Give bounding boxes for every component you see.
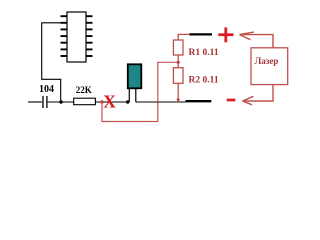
wire R1-R2 link: [177, 55, 179, 68]
resistor R1: [173, 40, 183, 55]
svg-text:R1 0.11: R1 0.11: [189, 48, 219, 58]
wire capacitor to resistor: [48, 101, 74, 103]
transistor Q1: [128, 64, 142, 102]
resistor 22K: [74, 98, 96, 105]
wire laser bottom lead with arrow: [243, 85, 274, 105]
wire laser top lead with arrow: [240, 32, 274, 48]
wire R2 bottom lead with arrow: [176, 83, 180, 102]
capacitor 104: [43, 96, 47, 108]
wire R1-R2 tap to wire: [158, 62, 178, 102]
bottom terminal bar: [186, 100, 212, 102]
svg-text:22K: 22K: [76, 85, 92, 95]
wire red bypass loop: [102, 102, 158, 122]
resistor R2: [173, 68, 183, 84]
node transistor base junction dot: [126, 100, 129, 103]
svg-text:Лазер: Лазер: [255, 56, 279, 66]
minus symbol: [227, 99, 236, 102]
top terminal bar: [190, 33, 213, 35]
wire R1 top lead to terminal: [178, 34, 189, 40]
svg-text:X: X: [103, 91, 116, 111]
node A junction dot: [59, 100, 62, 103]
wire left lead: [28, 101, 42, 103]
wire transistor to bottom terminal: [136, 101, 186, 103]
wire IC pin2 to capacitor node: [42, 23, 66, 102]
node R1-R2 junction dot: [177, 61, 180, 64]
laser box: [251, 48, 288, 85]
svg-text:R2 0.11: R2 0.11: [189, 76, 219, 86]
plus symbol: [218, 27, 233, 42]
node red tap dot: [100, 100, 103, 103]
svg-text:104: 104: [39, 84, 54, 95]
IC U1: [61, 12, 93, 62]
wire resistor to transistor: [95, 101, 127, 103]
